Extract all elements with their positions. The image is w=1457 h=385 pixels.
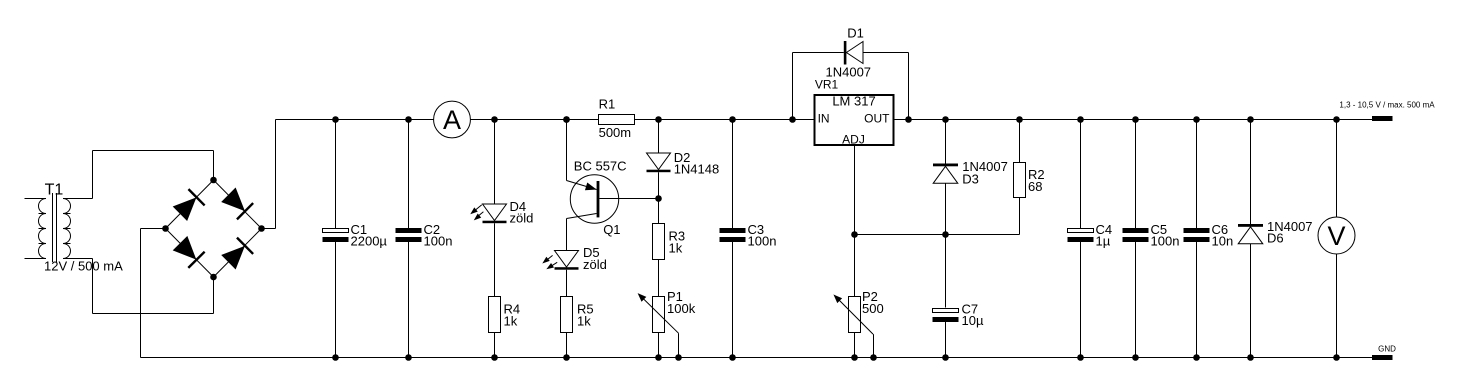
svg-text:100n: 100n [748, 233, 777, 248]
svg-text:1N4148: 1N4148 [674, 161, 720, 176]
svg-text:10µ: 10µ [962, 313, 984, 328]
svg-text:1k: 1k [504, 313, 518, 328]
svg-text:68: 68 [1028, 179, 1042, 194]
svg-text:100n: 100n [1151, 233, 1180, 248]
svg-text:12V / 500 mA: 12V / 500 mA [44, 259, 123, 274]
svg-text:BC 557C: BC 557C [574, 159, 627, 174]
svg-text:10n: 10n [1212, 233, 1234, 248]
svg-text:D3: D3 [962, 171, 979, 186]
svg-text:1k: 1k [669, 240, 683, 255]
svg-text:GND: GND [1378, 344, 1396, 353]
svg-text:T1: T1 [45, 181, 64, 198]
svg-text:ADJ: ADJ [842, 132, 865, 146]
svg-text:100n: 100n [424, 233, 453, 248]
svg-text:IN: IN [818, 112, 830, 126]
svg-text:1,3 - 10,5 V / max. 500 mA: 1,3 - 10,5 V / max. 500 mA [1339, 101, 1435, 110]
svg-text:V: V [1327, 221, 1345, 251]
svg-text:D1: D1 [847, 25, 864, 40]
svg-text:R1: R1 [599, 97, 616, 112]
svg-text:100k: 100k [667, 301, 696, 316]
svg-text:500m: 500m [599, 125, 632, 140]
svg-text:VR1: VR1 [815, 77, 839, 91]
svg-text:LM 317: LM 317 [832, 94, 875, 109]
svg-text:Q1: Q1 [603, 222, 620, 237]
svg-text:D6: D6 [1267, 231, 1284, 246]
svg-text:1µ: 1µ [1096, 233, 1111, 248]
svg-text:A: A [443, 105, 461, 135]
svg-text:zöld: zöld [510, 211, 534, 226]
svg-text:2200µ: 2200µ [351, 233, 388, 248]
svg-text:OUT: OUT [864, 112, 890, 126]
svg-text:1k: 1k [577, 313, 591, 328]
svg-text:500: 500 [862, 301, 884, 316]
svg-text:zöld: zöld [583, 257, 607, 272]
